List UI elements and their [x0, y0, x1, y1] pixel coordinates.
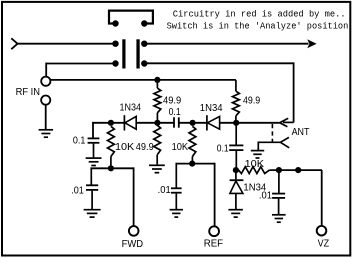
ground R4: [149, 164, 165, 166]
svg-text:VZ: VZ: [318, 238, 330, 249]
connector RF IN shield: [41, 96, 50, 105]
resistor R1 10K: [108, 126, 115, 156]
capacitor C1 0.1 shunt: [88, 137, 100, 139]
svg-text:RF IN: RF IN: [16, 87, 40, 98]
switch linkage dashed: [271, 124, 273, 142]
svg-text:49.9: 49.9: [163, 96, 181, 107]
ground C5: [272, 214, 286, 216]
wire transformer to output arrow: [144, 43, 308, 45]
wire C4 to ground: [175, 194, 177, 209]
wire REF node right arm: [192, 163, 214, 165]
switch upper arm: [283, 121, 294, 123]
svg-text:1N34: 1N34: [120, 102, 142, 113]
wire main bus seg3: [179, 122, 207, 124]
transformer T1 core bars: [122, 39, 125, 68]
capacitor C4 .01: [171, 187, 182, 189]
input arrow feather: [11, 38, 17, 43]
svg-text:0.1: 0.1: [73, 136, 86, 147]
ground D3: [228, 209, 243, 211]
ground C4: [170, 209, 183, 211]
node bus-C3: [233, 120, 239, 126]
wire bus left corner down: [92, 122, 94, 138]
node T1 top-right: [141, 41, 147, 47]
svg-text:Circuitry in red is added by m: Circuitry in red is added by me..: [173, 10, 346, 20]
node bracket-left: [112, 20, 118, 26]
terminal REF: [209, 226, 219, 236]
svg-text:0.1: 0.1: [169, 107, 181, 118]
node bus-R2b: [154, 120, 160, 126]
terminal VZ: [317, 226, 327, 236]
wire C1 to ground: [93, 144, 95, 158]
wire shield to ground: [45, 105, 47, 130]
ground switch: [251, 150, 264, 152]
capacitor C3 0.1: [235, 123, 237, 145]
svg-text:1N34: 1N34: [200, 103, 223, 114]
svg-text:49.9: 49.9: [136, 142, 154, 153]
node T1 top-left: [112, 41, 118, 47]
node T1 bottom-right: [141, 60, 147, 66]
svg-text:.01: .01: [259, 190, 272, 201]
terminal FWD: [129, 226, 139, 236]
resistor R5 10K: [189, 126, 196, 156]
jumper bracket over transformer: [109, 11, 153, 24]
node FWD rail: [108, 165, 114, 171]
switch lower arm: [258, 141, 280, 143]
node T1 bottom-left: [112, 60, 118, 66]
node bracket-right: [141, 20, 147, 26]
resistor R4 49.9 lower: [154, 125, 161, 155]
node R6-C5: [276, 167, 282, 173]
capacitor C2 0.1 series: [173, 117, 175, 127]
resistor R6 10K horizontal: [239, 167, 270, 174]
svg-text:0.1: 0.1: [217, 144, 229, 155]
svg-text:ANT: ANT: [292, 127, 311, 138]
resistor R2 49.9 upper: [156, 80, 158, 88]
diode D3 1N34: [235, 170, 237, 179]
wire switch lower to ground: [257, 141, 259, 150]
svg-text:REF: REF: [204, 238, 223, 249]
diode D2 1N34: [206, 115, 208, 130]
node REF junction: [189, 161, 195, 167]
wire C6 to ground: [91, 191, 93, 209]
svg-text:Switch is in the 'Analyze' pos: Switch is in the 'Analyze' position: [167, 21, 349, 31]
capacitor C5 .01: [278, 169, 280, 193]
capacitor C6 .01: [86, 184, 98, 186]
wire T1 bottom-left to RF IN: [46, 63, 115, 65]
node C3-D3-R6: [233, 167, 239, 173]
wire top-left to transformer: [17, 43, 116, 45]
svg-text:49.9: 49.9: [243, 96, 260, 107]
connector RF IN center: [41, 77, 50, 86]
node bus-R5: [190, 120, 196, 126]
wire to FWD terminal: [133, 167, 135, 226]
wire VZ rail: [279, 169, 322, 171]
diode D1 1N34: [123, 115, 125, 130]
resistor R3 49.9 upper-right: [235, 80, 237, 91]
output arrowhead: [307, 39, 316, 48]
svg-text:10K: 10K: [172, 142, 189, 153]
wire main bus seg2: [136, 122, 173, 124]
wire main bus seg1: [92, 122, 124, 124]
wire FWD rail: [90, 167, 133, 169]
wire T1 bottom-right to switch: [144, 62, 293, 64]
svg-text:10K: 10K: [115, 142, 134, 153]
svg-text:FWD: FWD: [122, 239, 144, 250]
node sense-R2: [154, 77, 160, 83]
ground C6: [84, 209, 101, 211]
svg-text:.01: .01: [71, 185, 84, 196]
wire main bus seg4: [220, 122, 280, 124]
node VZ rail: [295, 167, 301, 173]
wire RF IN sense bus: [50, 79, 236, 81]
ground shield: [39, 129, 54, 131]
svg-text:.01: .01: [158, 185, 171, 196]
node bus-R1: [108, 120, 114, 126]
ground C1: [86, 157, 102, 159]
wire REF node left arm: [176, 163, 192, 165]
